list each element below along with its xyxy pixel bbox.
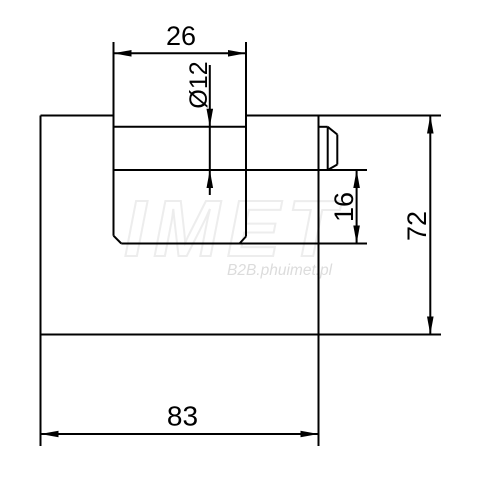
svg-text:16: 16 <box>329 192 359 222</box>
svg-text:72: 72 <box>402 211 432 241</box>
svg-text:B2B.phuimet.pl: B2B.phuimet.pl <box>227 262 333 279</box>
svg-text:Ø12: Ø12 <box>185 61 213 108</box>
svg-text:IMET: IMET <box>124 184 343 273</box>
svg-text:26: 26 <box>166 21 196 51</box>
svg-text:83: 83 <box>167 401 198 432</box>
